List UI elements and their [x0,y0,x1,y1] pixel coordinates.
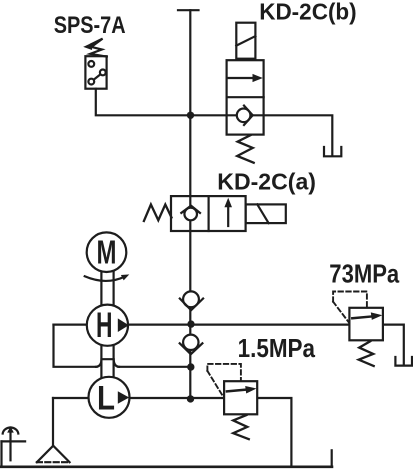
tank: right end upturn [331,450,333,467]
solenoid valve KD-2C(a) [144,196,286,231]
check valve in KD-2C(b) closed position [237,109,251,123]
svg-text:L: L [97,380,115,418]
tank: left end upturn [0,441,2,466]
return spring KD-2C(a) [144,205,172,222]
electric signal zigzag arrow of SPS-7A [83,39,107,57]
wire: H pump suction from junction [54,325,97,367]
valve body KD-2C(a) [171,196,246,231]
wire: 1.5MPa relief outlet to tank [257,398,291,467]
junction node at L pump output [187,395,194,402]
valve body KD-2C(b) [227,60,264,134]
open position arrow KD-2C(b) [228,77,255,79]
svg-text:1.5MPa: 1.5MPa [238,333,316,363]
solenoid coil of KD-2C(b) [236,23,255,59]
electric motor M [87,232,127,272]
wire: L pump suction down to strainer [52,398,54,446]
wire: suction line continues to junction [119,366,191,368]
check valve in KD-2C(a) closed position [184,208,197,221]
solenoid valve KD-2C(b) [227,23,264,163]
svg-text:M: M [97,234,117,271]
return spring KD-2C(b) [237,135,254,163]
svg-text:KD-2C(b): KD-2C(b) [259,0,357,25]
pump drive shaft (double line) [101,271,113,379]
low pressure pump L [89,377,130,418]
wire: L pump output line to 1.5MPa relief [53,397,224,399]
check valve (upper) on main line [180,291,203,310]
svg-text:73MPa: 73MPa [329,259,399,289]
wire: H pump pressure line to 73MPa relief [54,324,350,326]
open position arrow KD-2C(a) [227,206,229,226]
relief valve 1.5MPa [207,364,257,439]
tank: left ledge [2,440,26,442]
svg-text:KD-2C(a): KD-2C(a) [217,168,316,194]
svg-text:H: H [96,306,113,345]
junction node at pressure switch branch [187,112,194,119]
tank symbol under KD-2C(b) [324,147,341,156]
relief valve 73MPa [333,292,383,367]
strainer (suction filter) [37,446,70,463]
wire: branch to pressure switch and KD-2C(b) at y=115 [96,89,332,155]
pressure switch SPS-7A [85,56,106,88]
solenoid coil of KD-2C(a) [246,204,286,223]
wire: main vertical pressure line [189,10,191,399]
junction node at H pump output [187,320,194,327]
wire: 73MPa relief outlet to tank [383,325,404,365]
tank symbol under 73MPa relief [395,357,412,366]
junction node at H pump suction [187,363,194,370]
rotation direction arrow [85,274,130,281]
wire: crossover hop over pump shaft [96,359,119,367]
wire: top vent bar of main pressure line [178,9,199,11]
high pressure pump H [87,305,129,346]
svg-text:SPS-7A: SPS-7A [54,12,126,39]
tank: bottom reservoir line [1,465,332,468]
check valve (lower) on main line [180,335,203,355]
breather (air vent) on tank [3,426,19,460]
